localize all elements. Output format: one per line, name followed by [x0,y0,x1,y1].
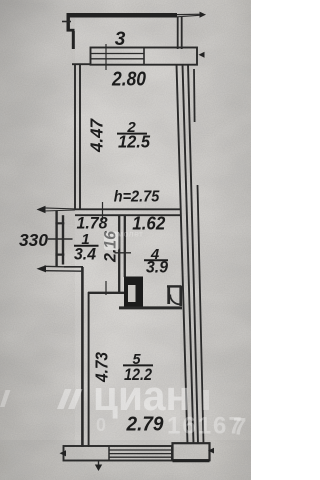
paper background [0,0,251,480]
bottom left wall arrow [44,266,83,271]
svg-text:3: 3 [115,29,126,50]
band left stub [72,63,91,65]
tick on balcony left wall [62,21,71,23]
hall / bathroom wall [119,215,125,292]
window hatch lines [91,54,144,59]
left wall arrow top [44,208,75,211]
svg-text:4.47: 4.47 [87,118,107,153]
window divider [143,48,145,65]
balcony left wall step [67,29,75,32]
door leaf left [167,286,170,304]
svg-text:1.78: 1.78 [77,215,109,233]
svg-text:12.5: 12.5 [118,132,150,152]
center watermark logo [104,232,120,251]
wall band below balcony with window [91,48,198,65]
svg-text:3.4: 3.4 [74,246,96,264]
balcony lower left wall [72,31,75,49]
box right tick [208,448,214,454]
left edge watermark fragment [0,390,11,407]
bottom down arrow [98,461,100,467]
bottom band left tick [60,450,67,456]
room 5 outer left wall [81,267,84,447]
balcony 3 left wall [67,13,70,31]
duct shaft [124,277,143,308]
entrance wall inner segments [62,215,64,264]
watermark layer [0,229,246,441]
door jamb right [179,286,182,306]
bottom window divider [108,446,110,461]
window dimension tick [105,44,107,70]
entrance door jambs [55,223,64,254]
right outer wall lines [177,64,188,444]
tick on hall top wall [102,202,104,220]
bottom wall band with window [64,446,173,461]
svg-text:h=2.75: h=2.75 [114,189,160,206]
svg-text:0: 0 [96,415,106,435]
room 2 left wall [75,64,80,209]
leader line from 330 [48,238,73,240]
wall band room2 / hall [75,209,181,215]
room 5 inner left wall [88,292,90,447]
door swing arc [170,295,180,305]
top right arrow [177,14,201,17]
svg-text:330: 330 [19,230,48,250]
svg-text:3.9: 3.9 [146,259,169,277]
hall bottom wall corner [64,266,83,268]
tick on hall wall [115,252,132,254]
balcony 3 top wall [67,13,178,18]
svg-text:7: 7 [233,414,246,441]
cian logo mark [57,389,83,409]
svg-text:2.80: 2.80 [111,69,146,91]
entrance wall outer [55,211,57,267]
tick on room 5 top wall [105,281,107,295]
svg-text:амолет: амолет [112,229,143,239]
interior paper lightening [75,17,180,447]
room 5 top wall [88,292,124,294]
band right end tick [199,52,205,58]
bottom window hatch [109,450,172,457]
balcony 3 right wall [178,17,182,49]
bottom right wall box [173,443,210,460]
door leaf top [167,285,182,287]
bathroom bottom wall [119,306,182,309]
